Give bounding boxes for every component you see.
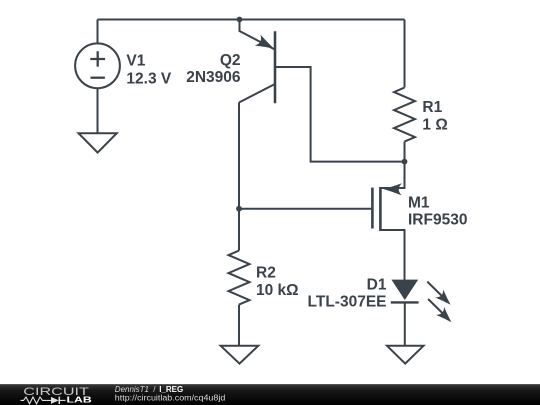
wire top rail from V1 top to R1 top [98,19,405,21]
svg-text:IRF9530: IRF9530 [408,212,467,229]
svg-text:2N3906: 2N3906 [186,69,241,86]
V1 plus sign [90,51,105,66]
svg-text:10 kΩ: 10 kΩ [256,282,299,299]
svg-text:http://circuitlab.com/cq4u8jd: http://circuitlab.com/cq4u8jd [115,394,226,403]
svg-text:R2: R2 [256,265,276,282]
transistor Q2 emitter arrow (PNP, pointing into base bar) [255,35,277,54]
svg-text:R1: R1 [422,99,442,116]
svg-text:LTL-307EE: LTL-307EE [308,294,387,311]
mosfet M1 channel bar [379,187,382,231]
resistor R2 zigzag [229,251,250,305]
wire Q2 collector down to gate node and R2 [238,103,240,251]
transistor Q2 collector diagonal [239,84,275,103]
resistor R1 zigzag [394,88,415,142]
mosfet M1 gate bar [371,188,374,229]
svg-text:M1: M1 [408,195,430,212]
node junction dot: R1 bottom / Q2 base / M1 source [402,159,408,165]
svg-text:Q2: Q2 [220,52,241,69]
wire D1 cathode to ground [404,302,406,345]
LED D1 emission arrow 1 head [435,290,454,309]
wire gate node to M1 gate bar [239,208,372,210]
LED D1 anode triangle [391,280,418,300]
transistor Q2 emitter lead (stub + diagonal from top rail) [240,20,276,50]
svg-text:I_REG: I_REG [159,385,183,394]
wire R2 bottom lead to ground [238,305,240,346]
footer black bar [0,384,540,405]
LED D1 emission arrow 1 line [427,282,446,301]
voltage source V1 circle [75,43,120,88]
wire M1 source lead up to node [380,162,404,188]
mosfet M1 source arrow (PMOS, pointing toward channel) [383,183,402,196]
mosfet M1 drain lead [380,230,404,280]
resistor R1 bottom lead [404,142,406,162]
ground symbol under D1 [387,346,424,364]
V1 minus sign [91,77,105,79]
ground symbol under V1 [79,133,117,152]
svg-text:1 Ω: 1 Ω [422,117,447,134]
ground symbol under R2 [221,346,259,364]
wire V1 bottom lead to ground [97,88,99,133]
transistor Q2 base bar [274,31,277,103]
svg-text:12.3 V: 12.3 V [126,71,171,88]
wire V1 top lead [97,20,99,44]
LED D1 emission arrow 2 line [428,299,447,318]
svg-text:V1: V1 [126,53,145,70]
resistor R1 top lead [404,20,406,88]
svg-text:LAB: LAB [67,396,93,405]
svg-text:DennisT1: DennisT1 [115,385,149,394]
CircuitLab logo waveform: lead, resistor zigzag, diode, lead [21,397,52,404]
node junction dot: Q2 emitter tap on top rail [237,17,243,23]
LED D1 emission arrow 2 head [436,307,455,326]
node junction dot: gate / collector / R2 [236,206,242,212]
LED D1 cathode bar [391,301,419,303]
svg-text:D1: D1 [367,277,387,294]
wire Q2 base lead to R1-bottom node [275,67,405,162]
